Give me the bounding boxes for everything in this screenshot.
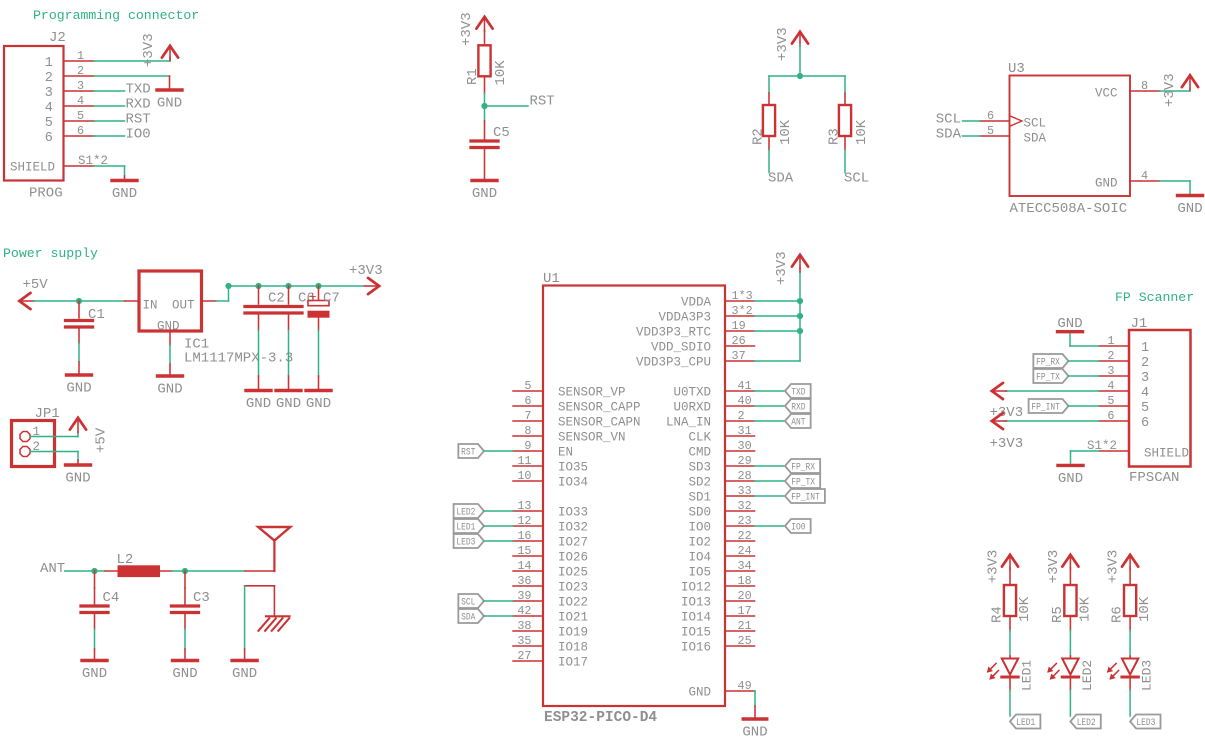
svg-text:34: 34: [738, 559, 752, 573]
svg-text:5: 5: [1107, 394, 1114, 408]
svg-text:RST: RST: [530, 94, 555, 110]
svg-text:IO32: IO32: [558, 521, 588, 535]
svg-text:1: 1: [45, 56, 53, 71]
svg-text:GND: GND: [276, 396, 301, 412]
svg-text:IO25: IO25: [558, 566, 588, 580]
svg-text:27: 27: [517, 649, 531, 663]
svg-text:5: 5: [77, 109, 84, 123]
svg-text:37: 37: [732, 349, 746, 363]
svg-text:15: 15: [517, 544, 531, 558]
svg-text:+3V3: +3V3: [775, 27, 791, 61]
svg-text:6: 6: [1141, 416, 1149, 431]
svg-text:VDD3P3_CPU: VDD3P3_CPU: [636, 356, 711, 370]
svg-text:SDA: SDA: [768, 171, 794, 187]
svg-text:10K: 10K: [1017, 596, 1033, 622]
svg-text:22: 22: [738, 529, 752, 543]
svg-text:49: 49: [738, 679, 752, 693]
svg-text:26: 26: [732, 334, 746, 348]
svg-text:IO5: IO5: [688, 566, 711, 580]
svg-text:40: 40: [738, 394, 752, 408]
svg-text:R3: R3: [827, 128, 843, 145]
svg-text:IO0: IO0: [126, 127, 151, 143]
svg-text:LED2: LED2: [1077, 717, 1096, 728]
svg-text:SDA: SDA: [461, 612, 475, 623]
svg-text:1: 1: [1141, 341, 1149, 356]
svg-text:SCL: SCL: [936, 112, 961, 128]
svg-text:10K: 10K: [1077, 596, 1093, 622]
svg-text:TXD: TXD: [126, 82, 151, 98]
svg-text:IO18: IO18: [558, 641, 588, 655]
svg-text:R4: R4: [990, 606, 1006, 623]
svg-text:5: 5: [987, 124, 994, 138]
svg-text:Power supply: Power supply: [3, 246, 98, 261]
svg-text:8: 8: [1141, 79, 1148, 93]
svg-text:6: 6: [1107, 409, 1114, 423]
svg-text:8: 8: [524, 424, 531, 438]
svg-text:C3: C3: [193, 590, 210, 606]
svg-text:LED1: LED1: [456, 522, 475, 533]
svg-text:21: 21: [738, 619, 752, 633]
svg-text:GND: GND: [66, 381, 91, 397]
svg-text:GND: GND: [65, 471, 90, 487]
svg-text:RXD: RXD: [791, 402, 805, 413]
svg-text:25: 25: [738, 634, 752, 648]
svg-text:GND: GND: [82, 666, 107, 682]
svg-text:3: 3: [77, 79, 84, 93]
svg-text:J1: J1: [1131, 316, 1148, 332]
svg-text:SD2: SD2: [688, 476, 711, 490]
svg-text:4: 4: [77, 94, 84, 108]
svg-text:GND: GND: [246, 396, 271, 412]
svg-text:42: 42: [517, 604, 531, 618]
svg-text:IO33: IO33: [558, 506, 588, 520]
svg-text:3: 3: [45, 86, 53, 101]
svg-text:GND: GND: [1057, 316, 1082, 332]
svg-text:+3V3: +3V3: [349, 263, 383, 279]
svg-text:R5: R5: [1050, 606, 1066, 623]
svg-text:5: 5: [524, 379, 531, 393]
svg-text:IO22: IO22: [558, 596, 588, 610]
svg-text:J2: J2: [49, 30, 66, 46]
svg-text:10K: 10K: [1137, 596, 1153, 622]
svg-text:VDDA: VDDA: [681, 296, 712, 310]
svg-text:7: 7: [524, 409, 531, 423]
svg-text:VDD3P3_RTC: VDD3P3_RTC: [636, 326, 711, 340]
svg-text:SENSOR_CAPN: SENSOR_CAPN: [558, 416, 641, 430]
svg-text:2: 2: [1107, 349, 1114, 363]
svg-text:LED1: LED1: [1016, 717, 1035, 728]
svg-text:10K: 10K: [778, 119, 794, 145]
svg-text:SCL: SCL: [461, 597, 475, 608]
svg-text:GND: GND: [157, 382, 182, 398]
svg-text:C4: C4: [103, 590, 120, 606]
svg-text:IO17: IO17: [558, 656, 588, 670]
svg-text:GND: GND: [1177, 201, 1202, 217]
svg-text:IO13: IO13: [681, 596, 711, 610]
svg-text:SCL: SCL: [1024, 117, 1047, 131]
svg-text:6: 6: [45, 131, 53, 146]
svg-text:39: 39: [517, 589, 531, 603]
svg-text:FP_RX: FP_RX: [791, 462, 815, 473]
svg-text:31: 31: [738, 424, 752, 438]
svg-text:1: 1: [1107, 334, 1114, 348]
svg-text:GND: GND: [472, 186, 497, 202]
svg-text:IO12: IO12: [681, 581, 711, 595]
svg-text:U3: U3: [1008, 61, 1025, 77]
svg-text:FP_INT: FP_INT: [1031, 402, 1060, 413]
svg-text:41: 41: [738, 379, 752, 393]
svg-text:GND: GND: [157, 320, 180, 334]
svg-text:IO16: IO16: [681, 641, 711, 655]
svg-text:U0RXD: U0RXD: [673, 401, 711, 415]
svg-text:SENSOR_VN: SENSOR_VN: [558, 431, 626, 445]
svg-text:L2: L2: [117, 552, 134, 568]
svg-text:+3V3: +3V3: [774, 251, 790, 285]
svg-text:GND: GND: [688, 686, 711, 700]
svg-text:SENSOR_CAPP: SENSOR_CAPP: [558, 401, 641, 415]
svg-text:FPSCAN: FPSCAN: [1129, 470, 1179, 486]
svg-text:Programming connector: Programming connector: [33, 8, 199, 23]
svg-text:VDD_SDIO: VDD_SDIO: [651, 341, 711, 355]
svg-text:GND: GND: [112, 186, 137, 202]
svg-text:32: 32: [738, 499, 752, 513]
svg-text:+3V3: +3V3: [141, 33, 157, 67]
svg-text:+5V: +5V: [94, 427, 110, 453]
svg-text:14: 14: [517, 559, 531, 573]
svg-text:6: 6: [987, 109, 994, 123]
svg-text:VCC: VCC: [1095, 87, 1118, 101]
svg-text:R2: R2: [751, 128, 767, 145]
svg-text:FP Scanner: FP Scanner: [1115, 290, 1194, 305]
svg-text:+3V3: +3V3: [1106, 550, 1122, 584]
svg-text:GND: GND: [157, 96, 182, 112]
svg-text:SD0: SD0: [688, 506, 711, 520]
svg-text:IO15: IO15: [681, 626, 711, 640]
svg-text:VDDA3P3: VDDA3P3: [658, 311, 711, 325]
svg-text:RXD: RXD: [126, 97, 151, 113]
svg-text:SDA: SDA: [936, 127, 962, 143]
svg-text:4: 4: [1107, 379, 1114, 393]
svg-text:FP_TX: FP_TX: [1036, 372, 1060, 383]
svg-text:RST: RST: [126, 112, 151, 128]
svg-text:GND: GND: [232, 666, 257, 682]
svg-text:2: 2: [77, 64, 84, 78]
svg-text:IO0: IO0: [791, 522, 805, 533]
svg-text:5: 5: [1141, 401, 1149, 416]
svg-text:IO35: IO35: [558, 461, 588, 475]
svg-text:23: 23: [738, 514, 752, 528]
svg-text:30: 30: [738, 439, 752, 453]
svg-text:+3V3: +3V3: [1046, 550, 1062, 584]
svg-text:GND: GND: [306, 396, 331, 412]
svg-text:LED3: LED3: [456, 537, 475, 548]
svg-text:IO2: IO2: [688, 536, 711, 550]
svg-text:OUT: OUT: [172, 299, 195, 313]
svg-text:16: 16: [517, 529, 531, 543]
svg-text:SCL: SCL: [844, 171, 869, 187]
svg-text:FP_INT: FP_INT: [791, 492, 820, 503]
svg-text:33: 33: [738, 484, 752, 498]
svg-text:+3V3: +3V3: [1162, 73, 1178, 107]
svg-text:ATECC508A-SOIC: ATECC508A-SOIC: [1010, 201, 1128, 217]
svg-text:LED3: LED3: [1136, 717, 1155, 728]
svg-text:CLK: CLK: [688, 431, 711, 445]
svg-text:LM1117MPX-3.3: LM1117MPX-3.3: [184, 351, 293, 367]
svg-text:SDA: SDA: [1024, 132, 1047, 146]
svg-text:C7: C7: [323, 291, 340, 307]
svg-text:LNA_IN: LNA_IN: [666, 416, 711, 430]
svg-text:11: 11: [517, 454, 531, 468]
svg-text:GND: GND: [1095, 177, 1118, 191]
svg-text:FP_TX: FP_TX: [791, 477, 815, 488]
svg-text:35: 35: [517, 634, 531, 648]
svg-text:SD1: SD1: [688, 491, 711, 505]
svg-text:3: 3: [1107, 364, 1114, 378]
svg-text:24: 24: [738, 544, 752, 558]
svg-text:2: 2: [738, 409, 745, 423]
svg-text:ANT: ANT: [40, 561, 65, 577]
svg-text:3: 3: [1141, 371, 1149, 386]
svg-text:17: 17: [738, 604, 752, 618]
svg-text:FP_RX: FP_RX: [1036, 357, 1060, 368]
svg-text:CMD: CMD: [688, 446, 711, 460]
svg-text:38: 38: [517, 619, 531, 633]
svg-text:LED2: LED2: [456, 507, 475, 518]
svg-text:ANT: ANT: [791, 417, 805, 428]
svg-text:18: 18: [738, 574, 752, 588]
svg-text:2: 2: [45, 71, 53, 86]
svg-text:IO26: IO26: [558, 551, 588, 565]
svg-text:2: 2: [1141, 356, 1149, 371]
svg-text:36: 36: [517, 574, 531, 588]
svg-text:U0TXD: U0TXD: [673, 386, 711, 400]
svg-text:+: +: [309, 291, 317, 305]
svg-text:+3V3: +3V3: [990, 436, 1024, 452]
svg-text:1: 1: [77, 49, 84, 63]
svg-text:C1: C1: [88, 307, 105, 323]
svg-text:IO34: IO34: [558, 476, 588, 490]
svg-text:10: 10: [517, 469, 531, 483]
svg-text:3*2: 3*2: [732, 304, 753, 318]
svg-text:IO0: IO0: [688, 521, 711, 535]
svg-text:SHIELD: SHIELD: [10, 161, 55, 175]
svg-text:SHIELD: SHIELD: [1144, 447, 1189, 461]
svg-text:IO4: IO4: [688, 551, 711, 565]
svg-text:6: 6: [524, 394, 531, 408]
svg-text:C5: C5: [493, 125, 510, 141]
svg-text:GND: GND: [742, 725, 767, 741]
svg-text:6: 6: [77, 124, 84, 138]
svg-text:SENSOR_VP: SENSOR_VP: [558, 386, 626, 400]
svg-text:LED2: LED2: [1080, 660, 1095, 691]
svg-text:JP1: JP1: [35, 406, 60, 422]
svg-text:10K: 10K: [854, 119, 870, 145]
svg-text:IO19: IO19: [558, 626, 588, 640]
svg-text:LED1: LED1: [1020, 660, 1035, 691]
svg-text:EN: EN: [558, 446, 573, 460]
svg-text:PROG: PROG: [29, 186, 63, 202]
svg-text:+3V3: +3V3: [986, 550, 1002, 584]
svg-text:+3V3: +3V3: [459, 12, 475, 46]
svg-text:LED3: LED3: [1140, 660, 1155, 691]
svg-text:4: 4: [45, 101, 53, 116]
svg-text:SD3: SD3: [688, 461, 711, 475]
svg-text:+5V: +5V: [23, 277, 49, 293]
svg-text:9: 9: [524, 439, 531, 453]
svg-text:20: 20: [738, 589, 752, 603]
svg-text:29: 29: [738, 454, 752, 468]
svg-text:IO21: IO21: [558, 611, 588, 625]
svg-text:TXD: TXD: [791, 387, 805, 398]
svg-text:C2: C2: [268, 291, 285, 307]
svg-text:28: 28: [738, 469, 752, 483]
svg-text:12: 12: [517, 514, 531, 528]
svg-text:RST: RST: [461, 447, 475, 458]
svg-text:IO27: IO27: [558, 536, 588, 550]
svg-text:IO23: IO23: [558, 581, 588, 595]
svg-text:IO14: IO14: [681, 611, 711, 625]
svg-text:GND: GND: [172, 666, 197, 682]
svg-text:19: 19: [732, 319, 746, 333]
svg-text:IN: IN: [143, 299, 158, 313]
svg-text:GND: GND: [1058, 471, 1083, 487]
svg-text:ESP32-PICO-D4: ESP32-PICO-D4: [544, 710, 657, 726]
svg-text:R6: R6: [1110, 606, 1126, 623]
svg-text:5: 5: [45, 116, 53, 131]
svg-text:4: 4: [1141, 386, 1149, 401]
svg-text:1*3: 1*3: [732, 289, 753, 303]
svg-text:4: 4: [1141, 169, 1148, 183]
svg-text:10K: 10K: [493, 60, 509, 86]
svg-text:U1: U1: [543, 271, 560, 287]
svg-text:R1: R1: [465, 68, 481, 85]
svg-text:13: 13: [517, 499, 531, 513]
